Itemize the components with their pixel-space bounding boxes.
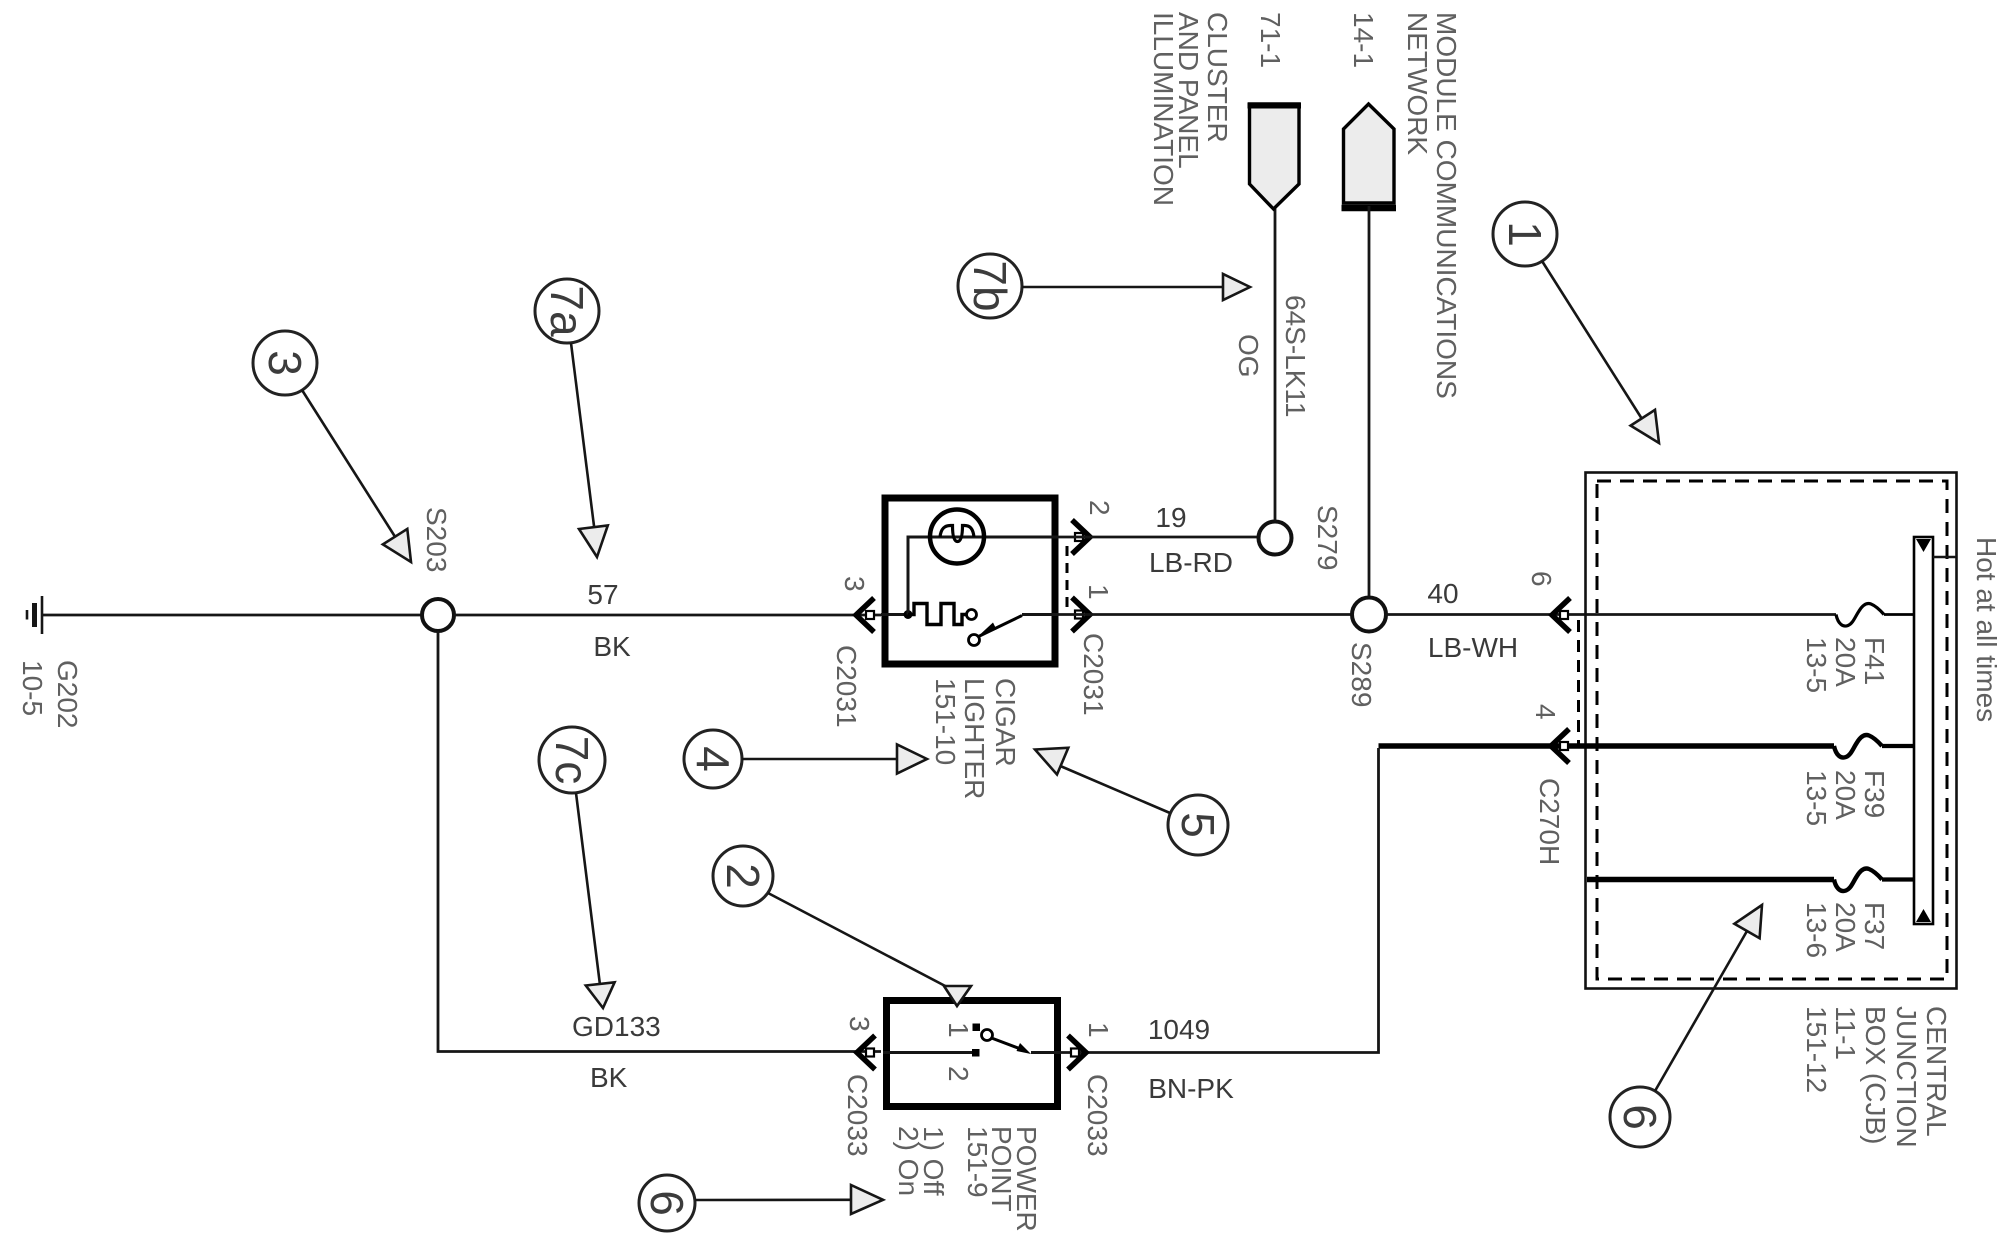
cigar: lamp circle [930,510,984,564]
svg-text:5: 5 [1172,812,1224,838]
svg-text:11-1: 11-1 [1830,1006,1861,1060]
cigar: pin3 wire inside [881,613,908,616]
svg-text:Hot at all times: Hot at all times [1971,537,2002,722]
svg-text:C2033: C2033 [1082,1074,1113,1157]
svg-text:OG: OG [1233,334,1264,378]
svg-text:G202: G202 [52,660,83,729]
svg-text:13-5: 13-5 [1801,637,1832,693]
callout 7a [535,279,608,557]
power point box 151-9 [887,1001,1058,1107]
svg-text:C270H: C270H [1534,778,1565,865]
svg-text:CENTRAL: CENTRAL [1921,1006,1952,1137]
svg-text:S203: S203 [421,507,452,572]
connector arrow at CJB pin 4 [1551,729,1569,763]
splice S203 [422,599,454,631]
wire BK : S203 down to power point pin 3 [438,631,881,1052]
svg-text:14-1: 14-1 [1348,12,1379,68]
svg-text:LB-WH: LB-WH [1428,632,1518,663]
svg-text:10-5: 10-5 [17,660,48,716]
svg-text:4: 4 [687,746,739,772]
svg-text:CLUSTER: CLUSTER [1202,12,1233,143]
ground G202 [27,596,42,634]
svg-text:BN-PK: BN-PK [1148,1073,1234,1104]
fuse F39 20A 13-5 with thick feed wire to C270H pin 4 [1379,743,1835,749]
wire 14-1 down to S289 [1368,206,1371,597]
callout 4 [684,730,927,788]
connector arrow at cigar pin 2 [1072,520,1090,554]
central junction box inner dashed [1597,481,1947,979]
callout 2 [713,846,971,1006]
bus bar (hot at all times) [1914,537,1956,924]
power point: switch arm [992,1038,1027,1051]
cigar: pin1 wire inside [1022,613,1058,616]
svg-text:1: 1 [1083,1022,1114,1038]
svg-text:6: 6 [641,1190,693,1216]
wire cigar pin1 to S289 [1058,613,1352,616]
cigar: switch arm [979,616,1023,637]
cigar lighter box 151-10 [885,498,1055,664]
callout 3 [253,331,411,562]
callout 5 [1035,748,1228,855]
svg-text:S289: S289 [1346,642,1377,707]
svg-text:6: 6 [1614,1104,1666,1130]
svg-text:3: 3 [259,350,311,376]
svg-text:7c: 7c [546,736,598,785]
svg-text:71-1: 71-1 [1255,12,1286,68]
svg-text:1049: 1049 [1148,1014,1210,1045]
svg-text:4: 4 [1530,704,1561,720]
svg-text:LB-RD: LB-RD [1149,547,1233,578]
cigar: junction dot [904,610,913,619]
svg-text:C2031: C2031 [1078,633,1109,716]
splice S289 [1352,598,1386,632]
wire 57 BK : S203 to cigar lighter pin 3 [454,614,881,617]
wire 1049 BN-PK : vertical drop from pin4 wire [1061,748,1379,1053]
svg-text:3: 3 [844,1016,875,1032]
svg-text:F41: F41 [1859,637,1890,685]
off-page connector 14-1 [1342,104,1397,208]
svg-text:F37: F37 [1859,902,1890,950]
svg-text:NETWORK: NETWORK [1402,12,1433,155]
connector arrow at power point pin 3 [857,1036,875,1070]
connector arrow at power point pin 1 [1068,1036,1086,1070]
cigar: switch lower contact circle [969,635,980,646]
power point: wire end contact square [972,1049,980,1057]
svg-text:7a: 7a [541,285,593,337]
svg-text:13-5: 13-5 [1801,770,1832,826]
central junction box outer [1586,473,1957,989]
splice S279 [1259,522,1292,555]
svg-text:1: 1 [1083,584,1114,600]
svg-text:20A: 20A [1830,902,1861,952]
callout 6 (right) [1610,905,1762,1147]
wire 40 LB-WH : S289 to CJB pin 6 / fuse F41 [1386,613,1836,616]
svg-text:2: 2 [1084,500,1115,516]
fuse F41 20A 13-5 [1836,604,1914,627]
power point: switch arm arrowhead [1017,1043,1032,1054]
svg-text:2) On: 2) On [893,1126,924,1196]
svg-text:CIGAR: CIGAR [990,678,1021,767]
connector arrow at cigar pin 3 [856,598,874,632]
svg-text:1: 1 [1499,221,1551,247]
fuse F37 20A 13-6 [1587,877,1834,883]
svg-text:2: 2 [943,1066,974,1082]
power point: pin1 wire inside [1031,1051,1061,1054]
svg-text:MODULE COMMUNICATIONS: MODULE COMMUNICATIONS [1431,12,1462,399]
svg-text:19: 19 [1155,502,1186,533]
svg-text:13-6: 13-6 [1801,902,1832,958]
cigar: heater element [908,604,966,625]
svg-text:64S-LK11: 64S-LK11 [1280,295,1311,417]
svg-text:1: 1 [943,1022,974,1038]
svg-text:BK: BK [590,1062,628,1093]
connector C2031 dashed line [1066,546,1069,611]
svg-text:7b: 7b [964,260,1016,311]
svg-text:BOX (CJB): BOX (CJB) [1860,1006,1891,1144]
svg-text:40: 40 [1427,578,1458,609]
svg-text:LIGHTER: LIGHTER [959,678,990,799]
callout 6 (left bottom) [639,1175,883,1231]
callout 1 [1493,202,1659,443]
svg-text:151-9: 151-9 [962,1126,993,1198]
svg-text:151-12: 151-12 [1801,1006,1832,1093]
callout 7b [958,254,1250,318]
cigar: heater contact circle [967,610,977,620]
svg-text:20A: 20A [1830,770,1861,820]
svg-text:6: 6 [1526,571,1557,587]
svg-text:BK: BK [593,631,631,662]
connector C270H dashed line [1577,620,1580,744]
svg-text:C2031: C2031 [831,645,862,728]
power point: pivot circle [982,1030,993,1041]
off-page connector 71-1 [1248,104,1302,209]
connector arrow at CJB pin 6 [1552,598,1570,632]
cigar: lamp filament [940,526,974,542]
svg-text:ILLUMINATION: ILLUMINATION [1148,12,1179,206]
power point: pin3 wire inside [883,1051,973,1054]
wire ground to S203 [42,614,422,617]
svg-text:3: 3 [839,576,870,592]
svg-text:F39: F39 [1859,770,1890,818]
connector arrow at cigar pin 1 [1072,598,1090,632]
svg-text:20A: 20A [1830,637,1861,687]
svg-text:151-10: 151-10 [930,678,961,765]
wire 64S-LK11 OG : S279 up to connector 71-1 [1274,208,1277,522]
svg-text:57: 57 [587,579,618,610]
cigar: lamp branch wire [908,537,1058,615]
svg-text:C2033: C2033 [842,1074,873,1157]
power point: upper contact square [973,1024,981,1032]
svg-text:JUNCTION: JUNCTION [1891,1006,1922,1148]
wire 19 LB-RD : cigar pin 2 to S279 [1058,536,1259,539]
callout 7c [539,727,615,1008]
svg-text:S279: S279 [1312,505,1343,570]
svg-text:2: 2 [717,863,769,889]
cigar: switch arm arrowhead [980,623,997,635]
svg-text:GD133: GD133 [572,1011,661,1042]
